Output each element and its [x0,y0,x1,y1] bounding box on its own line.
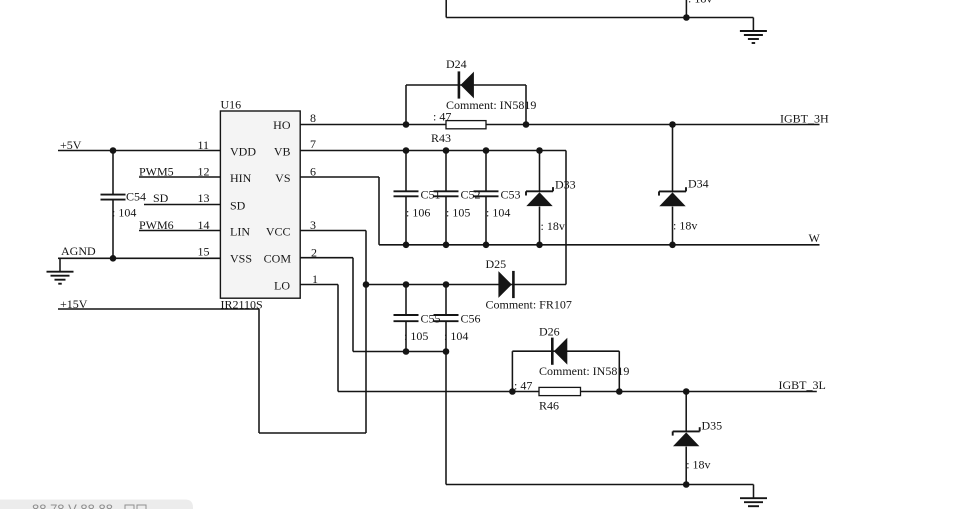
wire AGND ground stem [59,258,61,271]
wire +5V to VDD pin 11 [58,150,220,152]
svg-text:C53: C53 [501,187,521,201]
wire COM down [352,258,354,352]
svg-text:: 105: : 105 [404,329,428,343]
wire D24 branch top [406,84,526,86]
svg-text:: 106: : 106 [406,206,430,220]
wire COM pin 2 stub [300,257,353,259]
wire D26 branch top [512,350,619,352]
wire +15V horizontal [58,308,259,310]
svg-text:D35: D35 [702,419,723,433]
svg-text:D26: D26 [539,325,560,339]
capacitor C55 [394,315,419,321]
svg-text:VS: VS [275,171,290,185]
wire C54 top lead [112,151,114,195]
wire C56 top lead [445,285,447,316]
svg-text:: 104: : 104 [444,329,468,343]
wire VCC to D25 to VB [366,284,566,286]
wire D24 branch left [405,85,407,125]
wire D26 branch left [511,351,513,391]
svg-text:Comment: FR107: Comment: FR107 [486,298,572,312]
svg-text:: 105: : 105 [446,206,470,220]
wire top stub from above [685,0,687,18]
node top junction [683,14,690,21]
wire VB pin 7 rail [300,150,566,152]
svg-text:D24: D24 [446,57,467,71]
zener diode D35 18v [673,432,699,446]
svg-text:IGBT_3H: IGBT_3H [780,112,829,126]
wire D35 bottom lead [685,447,687,485]
svg-text:: 47: : 47 [433,110,451,124]
node VB/C53 [483,147,490,154]
wire C56 bottom lead down to ground rail [445,321,447,484]
node VS/C52 [443,242,450,249]
svg-text:15: 15 [198,245,210,259]
wire IGBT_3L line [338,391,817,393]
node HO/D24 left [403,121,410,128]
wire C54 bottom lead [112,200,114,259]
svg-text:C55: C55 [421,312,441,326]
svg-text:VB: VB [274,145,291,159]
node IGBT_3H/D34 [669,121,676,128]
svg-text:AGND: AGND [61,244,96,258]
node IGBT_3L/D26 left [509,388,516,395]
node VCC/D25 rail [363,281,370,288]
svg-text:: 104: : 104 [486,206,510,220]
svg-text:: 18v: : 18v [688,0,712,6]
wire C55 top lead [405,285,407,316]
svg-text:SD: SD [153,191,169,205]
wire VB down to D25 cathode [565,151,567,285]
svg-text:: 47: : 47 [514,379,532,393]
svg-text:IGBT_3L: IGBT_3L [779,378,826,392]
wire VS down [378,177,380,245]
node IGBT_3L/D26 right [616,388,623,395]
wire +15V down [258,309,260,433]
node VB/C51 [403,147,410,154]
wire LO down [337,285,339,392]
svg-text:13: 13 [198,191,210,205]
wire C52 bottom lead [445,196,447,245]
svg-text:Comment: IN5819: Comment: IN5819 [446,98,536,112]
capacitor C54 [101,195,126,200]
wire AGND to VSS pin 15 [58,257,220,259]
svg-text:PWM5: PWM5 [139,165,174,179]
node W/D34 [669,242,676,249]
wire D34 top lead [672,125,674,192]
node VB/D33 [536,147,543,154]
node VS/C51 [403,242,410,249]
node VS/C53 [483,242,490,249]
diode D24 IN5819 [461,72,474,99]
wire VS pin 6 stub [300,176,379,178]
svg-text:R46: R46 [539,399,559,413]
zener diode D34 18v [659,192,685,206]
node VS/D33 [536,242,543,249]
capacitor C56 [434,315,459,321]
svg-text:: 18v: : 18v [686,458,710,472]
wire top horizontal [446,17,753,19]
svg-text:+5V: +5V [60,138,82,152]
wire D24 branch right [525,85,527,125]
wire C51 top lead [405,151,407,192]
wire PWM5 to HIN pin 12 [139,176,220,178]
node +5V / C54 [110,147,117,154]
wire +15V bottom horizontal [259,432,366,434]
resistor R43 :47 [446,121,486,129]
wire bottom ground stem [753,485,755,499]
wire HO pin 8 to IGBT_3H [300,124,819,126]
wire D33 bottom lead [539,207,541,245]
svg-text:VDD: VDD [230,145,256,159]
svg-text:C51: C51 [421,187,441,201]
svg-text:PWM6: PWM6 [139,218,174,232]
svg-text:Comment: IN5819: Comment: IN5819 [539,364,629,378]
wire bottom ground rail [446,484,754,486]
svg-text:D33: D33 [555,178,576,192]
svg-text:HO: HO [273,118,291,132]
ground bottom right [740,498,767,510]
wire VCC pin 3 stub [300,230,366,232]
wire D35 top lead [685,392,687,432]
svg-text:LO: LO [274,279,290,293]
wire SD to SD pin 13 [144,204,220,206]
status overlay box bottom-left [0,500,193,510]
zener diode D33 18v [526,192,552,206]
capacitor C51 [394,191,419,196]
wire C52 top lead [445,151,447,192]
svg-text:R43: R43 [431,131,451,145]
svg-text:+15V: +15V [60,297,88,311]
svg-text:COM: COM [264,252,292,266]
wire D26 branch right [618,351,620,391]
svg-text:C54: C54 [126,190,146,204]
svg-text:7: 7 [310,137,316,151]
op-amp U1 IC U16 IR2110S body [220,111,300,298]
wire C53 top lead [485,151,487,192]
wire LO pin 1 stub [300,284,338,286]
node D25rail/C56 [443,281,450,288]
svg-text:W: W [809,231,821,245]
node AGND / C54 [110,255,117,262]
svg-text:LIN: LIN [230,225,250,239]
ground top [740,31,767,43]
wire D33 top lead [539,151,541,192]
ground AGND [47,272,74,284]
wire top-left vertical [445,0,447,18]
wire PWM6 to LIN pin 14 [139,230,220,232]
resistor R46 :47 [539,387,581,395]
node VB/C52 [443,147,450,154]
svg-text:: 18v: : 18v [673,219,697,233]
svg-text:VSS: VSS [230,252,252,266]
svg-text:SD: SD [230,199,246,213]
svg-text:88.78 V 88.88: 88.78 V 88.88 [32,502,113,510]
wire C55 bottom lead [405,321,407,351]
wire C53 bottom lead [485,196,487,245]
wire +15V up to VCC [365,231,367,434]
svg-text:: 104: : 104 [112,206,136,220]
diode D26 IN5819 [554,338,567,365]
capacitor C53 [474,191,499,196]
svg-text:HIN: HIN [230,171,252,185]
svg-text:C56: C56 [461,312,481,326]
wire to top ground [752,18,754,32]
wire COM rail to C55 C56 [353,351,446,353]
wire D34 bottom lead [672,207,674,245]
node ground rail/D35 [683,481,690,488]
svg-text:U16: U16 [221,98,242,112]
svg-text:8: 8 [310,111,316,125]
node COMrail/C56 [443,348,450,355]
svg-text:VCC: VCC [266,225,291,239]
diode D25 FR107 [498,271,511,298]
svg-text:D34: D34 [688,177,709,191]
node COMrail/C55 [403,348,410,355]
svg-text:C52: C52 [461,187,481,201]
wire C51 bottom lead [405,196,407,245]
node HO/D24 right [523,121,530,128]
node IGBT_3L/D35 [683,388,690,395]
svg-text:D25: D25 [486,257,507,271]
capacitor C52 [434,191,459,196]
svg-text:: 18v: : 18v [541,219,565,233]
wire W rail [379,244,820,246]
node D25rail/C55 [403,281,410,288]
